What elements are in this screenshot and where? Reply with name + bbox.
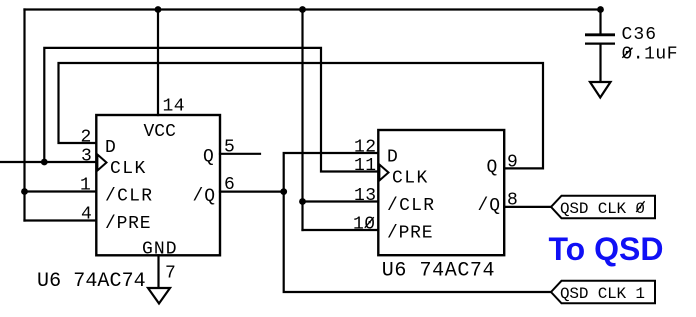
wire V2 drop to right FF bbox=[301, 10, 303, 231]
svg-text:3: 3 bbox=[81, 146, 92, 166]
node junction top rail at pin 14 bbox=[155, 6, 162, 13]
svg-text:Q: Q bbox=[487, 157, 498, 177]
ground at pin 7 bbox=[148, 288, 170, 304]
svg-text:/PRE: /PRE bbox=[387, 224, 433, 244]
flip-flop U6a box bbox=[96, 115, 220, 255]
svg-text:/CLR: /CLR bbox=[387, 196, 434, 216]
svg-text:C36: C36 bbox=[622, 25, 657, 45]
node junction top rail at V2 bbox=[299, 6, 306, 13]
wire /Q1 to D2 bbox=[284, 153, 379, 192]
wire pin 5 Q stub bbox=[220, 153, 260, 155]
svg-text:U6 74AC74: U6 74AC74 bbox=[37, 270, 146, 293]
wire C36 top lead bbox=[599, 10, 601, 35]
svg-text:5: 5 bbox=[224, 137, 235, 157]
node junction top rail at C36 bbox=[597, 6, 604, 13]
svg-text:/CLR: /CLR bbox=[105, 187, 152, 207]
svg-text:11: 11 bbox=[354, 156, 376, 176]
flip-flop U6b box bbox=[378, 130, 504, 255]
svg-text:QSD CLK 0: QSD CLK 0 bbox=[560, 200, 645, 218]
wire CLK input net bbox=[0, 161, 96, 163]
svg-text:U6 74AC74: U6 74AC74 bbox=[382, 259, 495, 282]
slashed zero of QSD CLK 0 bbox=[636, 201, 644, 212]
wire pin 8 to QSD CLK 0 bbox=[504, 206, 551, 208]
net flag QSD CLK 1 bbox=[551, 281, 655, 304]
svg-text:8: 8 bbox=[507, 191, 518, 211]
svg-text:CLK: CLK bbox=[110, 159, 145, 179]
svg-text:Q: Q bbox=[203, 147, 214, 167]
svg-text:2: 2 bbox=[81, 127, 92, 147]
wire pin 14 VCC drop bbox=[157, 10, 159, 116]
svg-text:0.1uF: 0.1uF bbox=[622, 44, 678, 64]
svg-text:/PRE: /PRE bbox=[105, 214, 151, 234]
svg-text:13: 13 bbox=[354, 186, 376, 206]
svg-text:6: 6 bbox=[224, 175, 235, 195]
wire Q2 to D1 feedback bbox=[59, 63, 544, 168]
svg-text:CLK: CLK bbox=[392, 168, 427, 188]
ground under C36 bbox=[590, 82, 611, 98]
svg-text:10: 10 bbox=[353, 215, 375, 235]
svg-text:D: D bbox=[105, 138, 116, 158]
flip-flop U6b clock triangle bbox=[379, 165, 388, 181]
slashed zero of pin 10 bbox=[365, 217, 374, 228]
capacitor C36 bbox=[585, 35, 615, 44]
svg-text:4: 4 bbox=[81, 205, 92, 225]
svg-text:/Q: /Q bbox=[193, 187, 216, 207]
wire pin 10 /PRE branch bbox=[303, 229, 379, 231]
node junction V2 pin 13 bbox=[299, 198, 306, 205]
svg-text:9: 9 bbox=[507, 153, 518, 173]
wire VCC left drop bbox=[23, 10, 25, 221]
svg-text:VCC: VCC bbox=[144, 122, 177, 142]
svg-text:GND: GND bbox=[142, 240, 177, 260]
wire CLK to pin 11 bbox=[44, 48, 378, 172]
wire pin 7 GND lead bbox=[157, 255, 159, 288]
slashed zero of 0.1uF bbox=[622, 48, 632, 58]
wire pin 13 /CLR branch bbox=[303, 200, 379, 202]
net flag QSD CLK 0 bbox=[551, 196, 655, 219]
svg-text:1: 1 bbox=[80, 176, 91, 196]
svg-text:14: 14 bbox=[163, 97, 185, 117]
flip-flop U6a clock triangle bbox=[97, 155, 106, 171]
node junction CLK net bbox=[41, 159, 48, 166]
wire VCC top rail bbox=[25, 8, 601, 10]
svg-text:12: 12 bbox=[354, 137, 376, 157]
node junction /Q1 net bbox=[280, 188, 287, 195]
wire pin 6 /Q bbox=[220, 191, 284, 193]
wire pin 4 /PRE branch bbox=[25, 219, 97, 221]
wire /Q1 to QSD CLK 1 bbox=[284, 192, 551, 292]
svg-text:7: 7 bbox=[165, 264, 176, 284]
wire C36 bottom lead bbox=[599, 45, 601, 82]
svg-text:To QSD: To QSD bbox=[549, 231, 664, 267]
svg-text:/Q: /Q bbox=[478, 196, 501, 216]
wire pin 1 /CLR branch bbox=[25, 190, 97, 192]
svg-text:QSD CLK 1: QSD CLK 1 bbox=[560, 285, 645, 303]
svg-text:D: D bbox=[387, 148, 398, 168]
node junction VCC drop pin 1 bbox=[21, 188, 28, 195]
